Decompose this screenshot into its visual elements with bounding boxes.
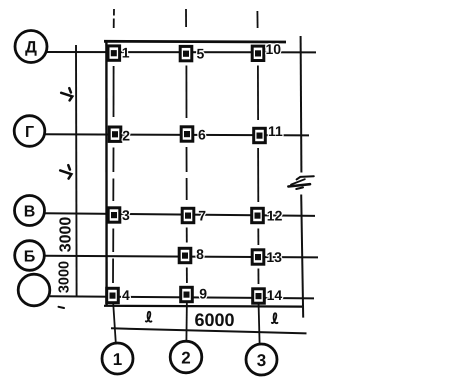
building top edge <box>104 40 286 44</box>
wire: column axis line 3 (dashed vertical) <box>257 11 259 344</box>
wire: row axis Д (horizontal) <box>47 51 316 53</box>
column 10 <box>252 46 264 60</box>
building bottom edge <box>104 305 302 308</box>
svg-text:10: 10 <box>266 41 282 57</box>
column 1 <box>108 46 120 60</box>
svg-text:2: 2 <box>181 348 190 367</box>
svg-text:8: 8 <box>196 246 204 262</box>
svg-text:12: 12 <box>267 208 283 224</box>
svg-text:9: 9 <box>199 285 207 301</box>
axis bubble 2 <box>170 341 202 373</box>
column 2 <box>109 127 121 141</box>
svg-text:4: 4 <box>122 287 130 303</box>
axis bubble В <box>15 196 45 226</box>
column 9 <box>181 287 193 301</box>
dimension line right (upper part) <box>300 36 303 173</box>
svg-text:7: 7 <box>198 208 206 224</box>
dimension line bottom <box>111 328 307 333</box>
small dash below axis А circle <box>59 307 65 308</box>
svg-text:В: В <box>24 203 36 220</box>
svg-text:3: 3 <box>122 207 130 223</box>
axis bubble Г <box>14 116 45 147</box>
column 5 <box>180 46 192 60</box>
svg-text:2: 2 <box>122 127 130 143</box>
dimension line right (lower part) <box>301 195 303 318</box>
svg-text:1: 1 <box>113 350 122 369</box>
svg-text:6: 6 <box>198 127 206 143</box>
svg-text:6000: 6000 <box>194 310 234 330</box>
column 8 <box>179 248 191 262</box>
svg-text:3000: 3000 <box>58 217 75 253</box>
axis bubble Д <box>15 31 47 63</box>
dimension text l (left bay) <box>146 312 152 322</box>
column 13 <box>252 250 264 264</box>
dimension text l (right bay) <box>272 313 278 323</box>
wire: row axis Г (horizontal) <box>45 134 309 135</box>
column 12 <box>252 208 264 222</box>
axis bubble Б <box>15 241 45 271</box>
svg-text:5: 5 <box>197 45 205 61</box>
axis bubble 1 <box>102 343 133 374</box>
wire: row axis В (horizontal) <box>45 213 316 216</box>
svg-text:1: 1 <box>122 45 130 61</box>
wire: column axis line 1 (dashed vertical) <box>113 9 116 343</box>
svg-text:14: 14 <box>267 287 283 303</box>
axis bubble 3 <box>246 344 277 375</box>
column 14 <box>253 289 265 303</box>
svg-text:Б: Б <box>24 248 36 265</box>
column 7 <box>182 208 194 222</box>
svg-text:3: 3 <box>257 351 266 370</box>
building left edge <box>105 41 108 307</box>
dimension line left <box>75 45 78 297</box>
axis bubble А (unlabeled) <box>18 274 50 306</box>
wire: row axis А bottom (horizontal) <box>50 296 314 298</box>
column 6 <box>181 127 193 141</box>
svg-text:Д: Д <box>25 39 37 57</box>
column 4 <box>107 288 119 302</box>
column 3 <box>108 208 120 222</box>
wire: column axis line 2 (dashed vertical) <box>185 9 188 341</box>
svg-text:11: 11 <box>268 123 283 139</box>
tick mark 1 on left dimension line <box>61 88 72 100</box>
break mark on right dimension line <box>288 176 313 189</box>
tick mark 2 on left dimension line <box>60 165 71 178</box>
column 11 <box>254 128 266 142</box>
svg-text:Г: Г <box>25 124 34 141</box>
wire: row axis Б (horizontal) <box>45 256 319 258</box>
svg-text:3000: 3000 <box>57 261 73 293</box>
svg-text:13: 13 <box>266 249 282 265</box>
